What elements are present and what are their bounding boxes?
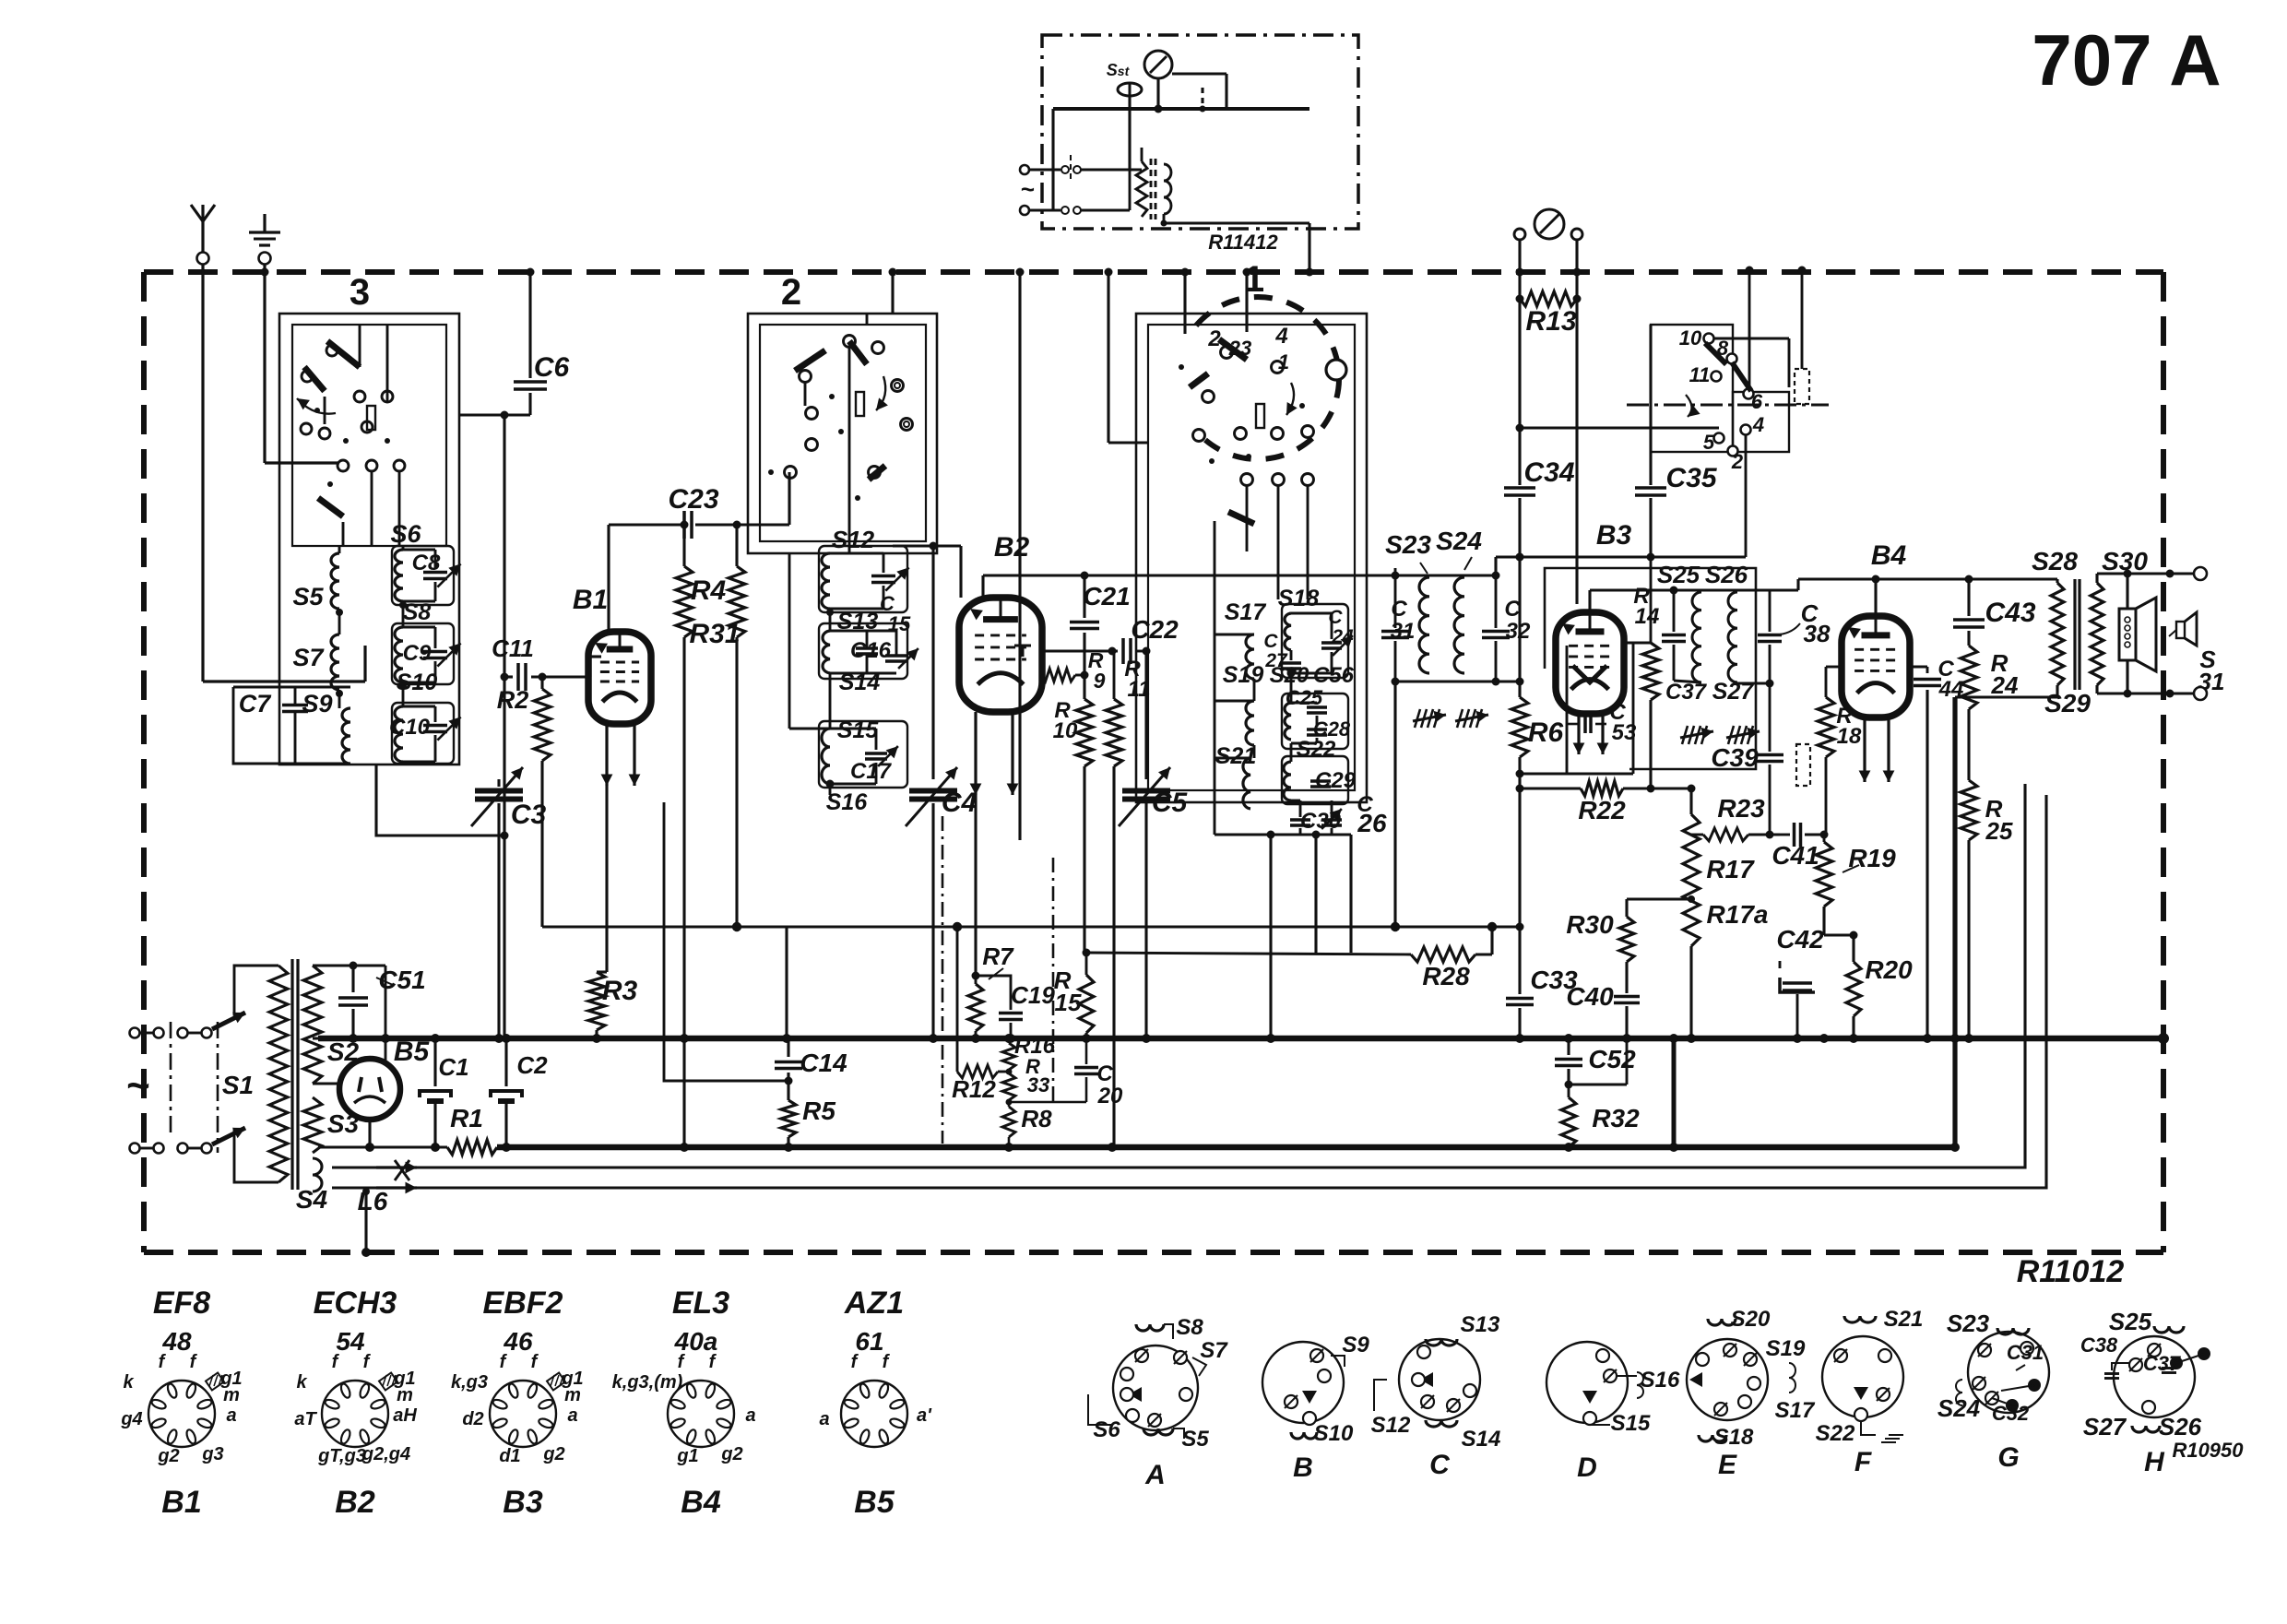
coil S22 (1284, 762, 1291, 800)
ground wire (263, 265, 266, 463)
svg-text:15: 15 (1055, 989, 1082, 1016)
svg-text:S14: S14 (1462, 1427, 1501, 1452)
svg-text:B4: B4 (1871, 540, 1907, 571)
svg-text:B: B (1293, 1452, 1313, 1483)
svg-text:C4: C4 (942, 788, 978, 818)
capacitor C23 (609, 523, 681, 526)
svg-text:C: C (1391, 597, 1407, 622)
svg-text:A: A (1144, 1460, 1166, 1490)
svg-text:48: 48 (161, 1327, 192, 1356)
secondary S3 (303, 1097, 322, 1153)
coil unit E (1687, 1339, 1768, 1420)
svg-text:a: a (745, 1405, 755, 1426)
svg-text:S9: S9 (1342, 1333, 1369, 1357)
svg-text:R28: R28 (1422, 962, 1470, 990)
junction dots on chassis bus (365, 1143, 374, 1152)
svg-text:EL3: EL3 (672, 1286, 729, 1321)
svg-text:C35: C35 (1665, 463, 1717, 493)
resistor R9 (1041, 669, 1075, 682)
svg-text:R19: R19 (1848, 844, 1896, 872)
svg-text:S22: S22 (1816, 1421, 1855, 1446)
B1 electrode wires (607, 525, 610, 634)
coil S21 (1243, 758, 1250, 809)
switch 1 wires (1183, 272, 1186, 334)
loudspeaker S31 (2119, 609, 2136, 660)
coil unit B (1262, 1342, 1344, 1423)
wire S2 to HT bus (313, 1037, 318, 1039)
wire C6 to switch3 and grid column (459, 413, 530, 416)
svg-text:38: 38 (1804, 620, 1831, 647)
coil S19 (1246, 701, 1254, 745)
svg-text:S27: S27 (2083, 1413, 2127, 1440)
HT bus thick (318, 1036, 2163, 1042)
main chassis dashed border (144, 269, 2163, 275)
switch 3 internal wires (359, 325, 361, 367)
svg-text:S24: S24 (1937, 1394, 1981, 1422)
svg-text:C19: C19 (1011, 981, 1055, 1009)
svg-text:g2,g4: g2,g4 (361, 1444, 410, 1464)
svg-text:S8: S8 (1176, 1315, 1203, 1340)
svg-text:B4: B4 (681, 1485, 721, 1520)
svg-text:R3: R3 (602, 976, 638, 1006)
svg-text:C41: C41 (1772, 841, 1819, 870)
tone switch axis dash-dot (1627, 404, 1829, 407)
coil S7 (331, 634, 339, 690)
svg-text:5: 5 (1703, 431, 1715, 454)
antenna (201, 219, 204, 252)
svg-text:2: 2 (1731, 450, 1744, 473)
svg-text:1: 1 (1278, 350, 1289, 373)
secondary S2 (303, 966, 322, 1084)
svg-text:a': a' (917, 1405, 932, 1426)
variable capacitor C3 (475, 788, 523, 794)
svg-text:g2: g2 (157, 1446, 179, 1466)
svg-text:S12: S12 (832, 526, 875, 553)
secondary S4 (313, 1158, 322, 1191)
capacitor C6 (528, 272, 531, 378)
coil S10 (395, 706, 403, 762)
svg-text:S7: S7 (1200, 1338, 1228, 1363)
svg-text:S26: S26 (2159, 1413, 2202, 1440)
IF2 tuning arrows (1680, 731, 1713, 738)
capacitor C32a (1482, 630, 1510, 634)
pickup column down to C34 and R6 (1518, 299, 1521, 485)
svg-text:S19: S19 (1223, 662, 1264, 688)
svg-text:9: 9 (1094, 669, 1106, 693)
resistor R25 (1961, 780, 1977, 840)
inset mains terminals (1020, 165, 1029, 174)
svg-text:C30: C30 (1300, 809, 1342, 834)
svg-text:S20: S20 (1731, 1307, 1771, 1332)
svg-text:C38: C38 (2080, 1334, 2118, 1357)
capacitor C43 (1967, 579, 1970, 616)
svg-text:C: C (1096, 1061, 1113, 1086)
resistor R30 (1619, 917, 1634, 962)
svg-text:4: 4 (1274, 324, 1287, 349)
svg-text:C11: C11 (492, 634, 534, 662)
capacitor C37 (1662, 634, 1686, 637)
resistor R31 (735, 525, 738, 566)
antenna wire (201, 265, 204, 682)
svg-text:B1: B1 (573, 585, 608, 615)
svg-text:S23: S23 (1947, 1310, 1990, 1337)
B4 cathode arrows (1863, 717, 1866, 782)
coil S5 (331, 553, 339, 609)
coil group boxes unit 3 (392, 546, 454, 605)
capacitor C44 (1926, 667, 1929, 673)
B2 cathode arrows (974, 712, 977, 795)
resistor R32 (1561, 1097, 1576, 1147)
resistor R2 (540, 677, 543, 689)
svg-text:S12: S12 (1371, 1413, 1411, 1438)
svg-text:R10950: R10950 (2172, 1439, 2244, 1462)
svg-text:C1: C1 (438, 1053, 468, 1081)
IF2 top wire from B3 anode (1590, 588, 1770, 591)
vertical to B3 top cap (1575, 299, 1578, 604)
capacitor C21 (1083, 575, 1085, 618)
svg-text:S8: S8 (403, 599, 432, 625)
coil S8 (395, 627, 403, 682)
B1 cathode arrows (605, 721, 608, 786)
tone switch wires (1714, 338, 1789, 340)
capacitor C53 (1568, 723, 1579, 726)
earth ground (263, 214, 266, 232)
svg-text:C10: C10 (389, 715, 431, 740)
mains terminals (130, 1028, 140, 1038)
tuning dial dashed circle (1196, 297, 1339, 459)
resistor R20 (1846, 962, 1861, 1016)
svg-text:C17: C17 (850, 759, 893, 784)
svg-text:10: 10 (1679, 326, 1702, 350)
svg-text:a: a (226, 1405, 236, 1426)
svg-text:k,g3: k,g3 (451, 1372, 488, 1393)
capacitor C28 (1307, 728, 1327, 731)
svg-text:S25: S25 (1657, 561, 1700, 588)
svg-text:S15: S15 (1611, 1411, 1651, 1436)
wire tone switch to pickup column (1520, 426, 1719, 429)
svg-text:R12: R12 (952, 1075, 996, 1103)
unit3 coil wires (338, 546, 341, 553)
coil group boxes unit 1 (1282, 604, 1348, 678)
misc vertical feeders (1018, 272, 1021, 840)
svg-text:S19: S19 (1766, 1336, 1806, 1361)
capacitor C7 (282, 704, 308, 707)
trimmer C17 (865, 752, 887, 755)
resistor R6 (1511, 697, 1528, 757)
svg-text:14: 14 (1635, 604, 1660, 629)
resistor R1 (447, 1140, 497, 1155)
svg-text:S4: S4 (296, 1185, 328, 1214)
svg-text:g3: g3 (201, 1444, 223, 1464)
svg-text:S17: S17 (1225, 599, 1267, 625)
inset feed to chassis (1308, 223, 1310, 272)
svg-text:20: 20 (1097, 1084, 1123, 1108)
svg-text:g2: g2 (720, 1444, 742, 1464)
svg-text:23: 23 (1228, 337, 1251, 360)
svg-text:C43: C43 (1985, 598, 2035, 628)
AVC line (542, 925, 1520, 928)
svg-text:25: 25 (1985, 817, 2013, 845)
resistor R16 (1002, 1043, 1015, 1070)
svg-text:B3: B3 (503, 1485, 543, 1520)
svg-text:R23: R23 (1717, 794, 1765, 823)
trimmer C10 (423, 724, 447, 728)
svg-text:R20: R20 (1865, 955, 1913, 984)
capacitor C19 (976, 976, 1011, 1010)
svg-text:C3: C3 (511, 800, 547, 830)
svg-text:EBF2: EBF2 (483, 1286, 563, 1321)
electrolytic C1 (433, 1038, 436, 1086)
svg-text:d1: d1 (499, 1446, 520, 1466)
coil group boxes unit 2 (819, 546, 907, 612)
svg-text:S16: S16 (826, 789, 869, 815)
detector line (1496, 555, 1746, 558)
capacitor C31a (1381, 630, 1409, 634)
coil unit G (1968, 1332, 2049, 1413)
svg-text:H: H (2144, 1447, 2165, 1477)
junction dots on HT bus (349, 1034, 358, 1043)
svg-text:d2: d2 (462, 1409, 483, 1429)
capacitor C16 (856, 646, 878, 650)
inset pilot lamp (1144, 51, 1172, 78)
heater line 2 (417, 795, 2046, 1188)
B3 anode wire top (1588, 590, 1591, 612)
capacitor C14 (787, 1038, 789, 1057)
svg-text:46: 46 (503, 1327, 533, 1356)
svg-text:2: 2 (781, 272, 801, 313)
svg-text:S1: S1 (222, 1071, 254, 1099)
trimmer C16a (885, 654, 907, 658)
svg-text:gT,g3: gT,g3 (317, 1446, 366, 1466)
wire C14 junction elbow (664, 1038, 788, 1081)
wire R15 to R28 line (1086, 953, 1411, 954)
electrolytic C2 (504, 1038, 507, 1086)
junction dots on AVC line (732, 922, 741, 931)
coil S17 (1246, 634, 1254, 679)
svg-text:707 A: 707 A (2032, 19, 2221, 101)
svg-text:S13: S13 (1461, 1312, 1500, 1337)
svg-text:S18: S18 (1278, 586, 1320, 611)
wire B2 aux (1052, 858, 1055, 1102)
svg-text:m: m (397, 1385, 413, 1405)
svg-text:g2: g2 (542, 1444, 564, 1464)
capacitor C41 (1793, 823, 1796, 847)
mains switch S1 (212, 1013, 245, 1029)
svg-text:S18: S18 (1714, 1425, 1754, 1450)
coil unit H (2114, 1336, 2195, 1417)
svg-text:S26: S26 (1705, 561, 1748, 588)
svg-text:k: k (296, 1372, 307, 1393)
svg-text:C31: C31 (2007, 1341, 2044, 1364)
variable capacitor C5 (1144, 651, 1147, 779)
resistor R3 (588, 972, 605, 1030)
svg-text:C42: C42 (1776, 925, 1824, 954)
svg-text:a: a (819, 1409, 829, 1429)
shielded lead symbol (1795, 369, 1809, 404)
svg-text:R32: R32 (1592, 1104, 1640, 1132)
speaker icon small (2176, 622, 2185, 638)
wire unit3 bottom elbow to C11 column (376, 765, 504, 836)
power transformer primary (234, 966, 278, 1014)
coil S9 (342, 708, 350, 764)
capacitor C30 and trimmer C26 (1290, 818, 1310, 822)
svg-text:4: 4 (1752, 413, 1764, 436)
svg-text:11: 11 (1689, 363, 1711, 386)
svg-text:C21: C21 (1083, 582, 1130, 610)
svg-text:S5: S5 (1181, 1427, 1209, 1452)
resistor R15 (1079, 975, 1094, 1033)
svg-text:C14: C14 (800, 1049, 847, 1077)
resistor R22 (1520, 787, 1581, 789)
coil unit C (1399, 1339, 1480, 1420)
capacitor C34 (1504, 486, 1535, 490)
svg-text:g1: g1 (676, 1446, 698, 1466)
svg-text:L6: L6 (358, 1187, 388, 1215)
coil unit A (1113, 1345, 1198, 1430)
shielded lead near C39 (1796, 744, 1810, 786)
svg-text:R30: R30 (1566, 910, 1614, 939)
svg-text:32: 32 (1506, 619, 1531, 644)
B3 shield box (1545, 568, 1756, 769)
capacitor C35 (1649, 325, 1652, 485)
svg-text:C29: C29 (1315, 768, 1357, 793)
svg-text:33: 33 (1027, 1073, 1049, 1096)
svg-text:C23: C23 (668, 484, 718, 515)
pin 4 wire down to detector line (1745, 435, 1748, 557)
B3 cathode return box (1566, 646, 1569, 774)
output terminals (2194, 567, 2207, 580)
svg-text:C32: C32 (1992, 1402, 2030, 1425)
svg-text:C7: C7 (239, 690, 272, 717)
IF1 wires (1394, 575, 1397, 628)
B3 cathode arrows (1577, 714, 1580, 754)
coil unit D (1546, 1342, 1628, 1423)
svg-text:B3: B3 (1596, 520, 1632, 551)
resistor R3b feed (785, 928, 788, 1038)
svg-text:26: 26 (1357, 809, 1387, 837)
inset mains unit dashed box (1042, 35, 1358, 229)
capacitor C25 (1307, 705, 1327, 709)
svg-text:R22: R22 (1578, 796, 1626, 824)
svg-text:S24: S24 (1436, 527, 1482, 555)
switch 2 contacts (800, 371, 812, 383)
svg-text:S6: S6 (1093, 1417, 1120, 1442)
svg-text:R6: R6 (1528, 717, 1564, 748)
coil S20 and C56 (1285, 703, 1291, 740)
svg-text:AZ1: AZ1 (844, 1286, 904, 1321)
svg-text:G: G (1997, 1442, 2019, 1473)
resistor R19 (1816, 842, 1832, 907)
bus link vertical thick (1672, 1038, 1677, 1147)
variable capacitor C4 (931, 546, 934, 779)
capacitor C38 (1758, 634, 1782, 637)
svg-text:Sst: Sst (1107, 61, 1131, 79)
svg-text:EF8: EF8 (153, 1286, 210, 1321)
svg-text:g4: g4 (120, 1409, 142, 1429)
coil S6 (395, 550, 403, 601)
svg-text:R11412: R11412 (1208, 231, 1278, 254)
svg-text:R17: R17 (1706, 855, 1755, 883)
svg-text:B2: B2 (994, 532, 1030, 563)
svg-text:C39: C39 (1711, 743, 1759, 772)
svg-text:10: 10 (1053, 718, 1078, 743)
svg-text:m: m (564, 1385, 581, 1405)
svg-text:24: 24 (1331, 626, 1354, 647)
svg-text:m: m (223, 1385, 240, 1405)
inset wiring (1053, 107, 1226, 111)
svg-text:2: 2 (1207, 326, 1221, 351)
B2 anode line to IF1 (981, 575, 984, 598)
svg-text:R7: R7 (982, 942, 1014, 970)
svg-text:ECH3: ECH3 (314, 1286, 397, 1321)
svg-text:R1: R1 (450, 1104, 483, 1132)
svg-text:24: 24 (1991, 671, 2019, 699)
B4 anode and grid wires (1874, 579, 1877, 616)
svg-text:S6: S6 (390, 520, 421, 548)
heater line 1 (417, 784, 2025, 1168)
svg-text:C2: C2 (516, 1051, 548, 1079)
svg-text:S5: S5 (292, 583, 324, 610)
trimmer C9 (423, 650, 447, 654)
switch 1 contacts (1221, 347, 1233, 359)
svg-text:18: 18 (1837, 724, 1862, 749)
chassis bus thick (497, 1144, 1955, 1151)
trimmer C8 (423, 571, 447, 575)
output transformer wires (2056, 579, 2058, 583)
capacitor C20 (1085, 1038, 1088, 1064)
svg-text:S25: S25 (2109, 1308, 2152, 1335)
svg-text:S28: S28 (2032, 547, 2078, 575)
IF1 secondary to detector line (1494, 557, 1497, 575)
svg-text:C6: C6 (534, 352, 570, 383)
svg-text:C52: C52 (1588, 1045, 1636, 1073)
B2 output wire right / C22 row (1041, 649, 1118, 652)
resistor R11 (1106, 699, 1122, 766)
transformer core (290, 959, 293, 1190)
svg-text:C37: C37 (1665, 680, 1708, 705)
svg-text:B1: B1 (161, 1485, 201, 1520)
resistor R24 (1961, 646, 1977, 709)
svg-text:F: F (1854, 1447, 1872, 1477)
tone switch box (1651, 325, 1733, 452)
resistor R4 (682, 525, 685, 566)
resistor R7 (975, 976, 978, 984)
resistor R14 (1650, 557, 1653, 643)
unit1 coil wires (1253, 679, 1256, 701)
svg-text:~: ~ (126, 1063, 150, 1108)
resistor R17 R17a (1683, 814, 1700, 946)
inset transformer (1136, 161, 1147, 217)
capacitor C33 (1518, 927, 1521, 994)
svg-text:C: C (1429, 1450, 1451, 1480)
unit 2 coil wires (829, 609, 832, 631)
IF1 tuning arrows (1413, 715, 1446, 721)
svg-text:a: a (567, 1405, 577, 1426)
svg-text:k: k (123, 1372, 134, 1393)
svg-text:3: 3 (350, 272, 370, 313)
R18 bottom feed (1825, 785, 1828, 835)
coil S13 (823, 631, 830, 673)
svg-text:k,g3,(m): k,g3,(m) (612, 1372, 683, 1393)
B2 cathode feed to R7 (974, 795, 977, 976)
svg-text:61: 61 (855, 1327, 883, 1356)
capacitor C40 (1614, 995, 1640, 999)
B2 grid top wire (959, 546, 962, 598)
capacitor C51 (313, 964, 385, 966)
svg-text:aT: aT (294, 1409, 317, 1429)
svg-text:C: C (1263, 631, 1278, 652)
resistor R5 (781, 1100, 796, 1137)
